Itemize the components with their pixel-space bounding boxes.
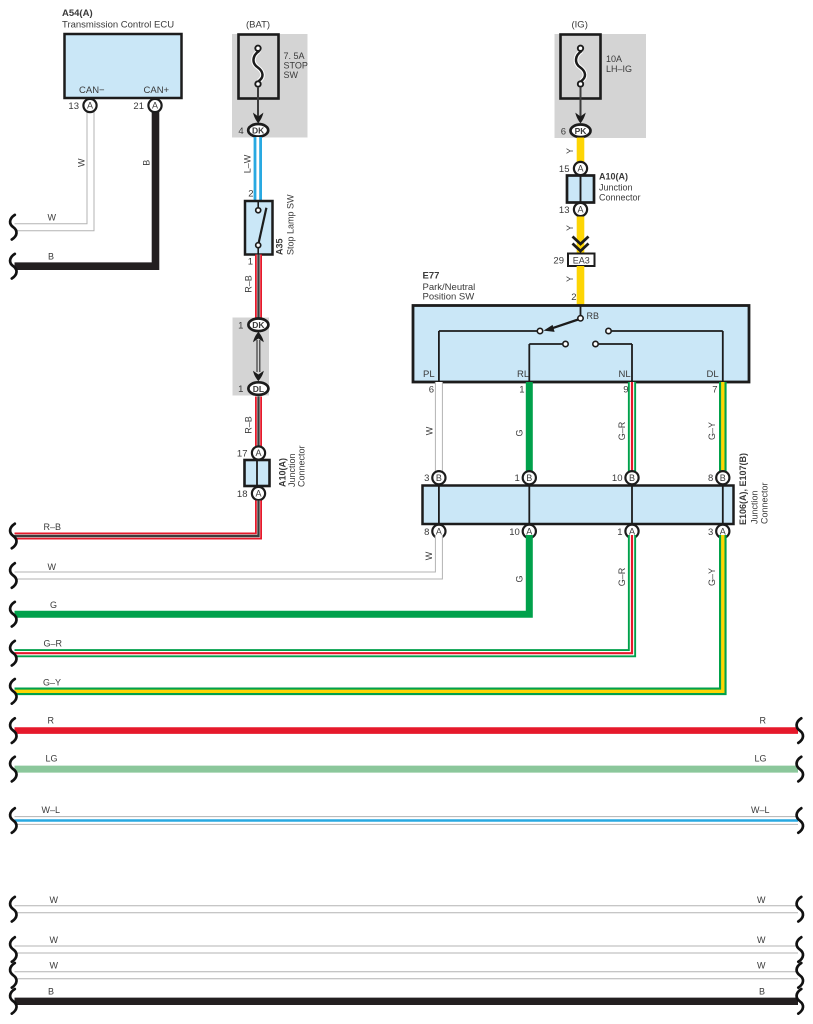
wire Y from A10(A) to EA3 (577, 217, 585, 254)
wire Y from PK to junction A10(A) (577, 138, 585, 163)
svg-text:Junction: Junction (599, 183, 633, 193)
wire between DK and DL (257, 340, 260, 372)
svg-text:B: B (436, 473, 442, 483)
svg-text:1: 1 (617, 527, 622, 538)
label A10(A) Junction Connector right (599, 172, 641, 203)
svg-text:3: 3 (708, 527, 713, 538)
svg-text:W: W (48, 562, 57, 572)
arrow up into DK (253, 332, 264, 342)
svg-text:RL: RL (517, 369, 529, 380)
label W2 right (757, 935, 766, 945)
label W vertical below (424, 551, 434, 560)
label W-L left (42, 805, 61, 815)
svg-text:3: 3 (424, 473, 429, 484)
connector pin 1 DL oval (238, 382, 268, 395)
label B bottom right (759, 987, 765, 997)
svg-text:7: 7 (712, 385, 717, 396)
svg-text:(IG): (IG) (572, 20, 588, 31)
svg-text:8: 8 (424, 527, 429, 538)
svg-text:Junction: Junction (287, 453, 297, 487)
svg-text:R–B: R–B (243, 275, 253, 293)
break symbol W mid left (10, 563, 16, 588)
svg-text:B: B (526, 473, 532, 483)
wire R-B from DL to junction A10(A) (255, 397, 262, 448)
svg-text:Connector: Connector (760, 482, 770, 524)
svg-text:Connector: Connector (297, 445, 307, 487)
label (IG) (572, 20, 588, 31)
label G vertical below (514, 575, 524, 582)
svg-text:15: 15 (559, 164, 570, 175)
wire G from pin 10A to left edge (15, 535, 530, 614)
label G-R vertical NL (617, 421, 627, 440)
label W1 right (757, 895, 766, 905)
break symbol R right (797, 718, 803, 743)
svg-text:A: A (577, 164, 583, 174)
svg-text:A: A (87, 101, 93, 111)
svg-text:1: 1 (519, 385, 524, 396)
svg-text:G–R: G–R (44, 639, 63, 649)
contact DL row right (606, 328, 723, 381)
svg-text:Y: Y (565, 148, 575, 154)
label LG left (46, 754, 58, 764)
svg-text:10: 10 (509, 527, 520, 538)
svg-text:A: A (255, 448, 261, 458)
pin numbers 6 1 9 7 below E77 (429, 385, 718, 396)
wire R-B to left edge (15, 501, 259, 537)
label B horizontal (48, 252, 54, 262)
svg-text:G–Y: G–Y (43, 678, 61, 688)
break symbol W2 left (10, 937, 16, 962)
break symbol G-Y left (10, 679, 16, 704)
svg-text:W: W (757, 935, 766, 945)
svg-text:6: 6 (561, 126, 566, 137)
svg-text:1: 1 (515, 473, 520, 484)
break symbol W wire left (10, 215, 16, 240)
svg-text:DL: DL (253, 384, 264, 394)
label G-Y vertical DL (707, 422, 717, 440)
svg-text:B: B (48, 252, 54, 262)
wire G-Y from pin 3A to left edge (15, 535, 723, 691)
break symbol W1 right (797, 897, 803, 922)
label G vertical RL (514, 429, 524, 436)
svg-text:W: W (757, 895, 766, 905)
svg-text:A: A (152, 101, 158, 111)
break symbol B bottom right (797, 989, 803, 1014)
svg-text:10A: 10A (606, 54, 622, 64)
svg-text:W–L: W–L (751, 805, 770, 815)
break symbol W-L right (797, 808, 803, 833)
svg-text:SW: SW (284, 70, 299, 80)
label B bottom left (48, 987, 54, 997)
arrow down into DL (253, 371, 264, 381)
svg-text:G: G (514, 429, 524, 436)
pin 3 B (424, 471, 445, 484)
switch E77 box (413, 306, 749, 383)
wire G-R from NL pin 9 (628, 382, 636, 475)
contact NL row (593, 341, 632, 381)
svg-text:G: G (50, 600, 57, 610)
svg-text:G–Y: G–Y (707, 568, 717, 586)
wire R-B from A35 to DK connector (255, 255, 262, 320)
contact RL row (529, 341, 568, 381)
svg-text:W: W (425, 426, 435, 435)
wire B full width (15, 998, 799, 1005)
wire W-L full width (15, 816, 799, 825)
wire W from PL pin 6 (435, 382, 443, 475)
svg-text:STOP: STOP (284, 61, 308, 71)
svg-text:R–B: R–B (243, 416, 253, 434)
pin 10 A (509, 525, 536, 538)
svg-text:18: 18 (237, 489, 248, 500)
svg-text:DK: DK (252, 126, 265, 136)
label LG right (755, 754, 767, 764)
pin 8 A (424, 525, 445, 538)
label W1 left (50, 895, 59, 905)
svg-text:A: A (577, 205, 583, 215)
junction connector E106(A) E107(B) box (423, 486, 734, 525)
break symbol W1 left (10, 897, 16, 922)
label E77 Park/Neutral Position SW (423, 271, 476, 303)
break symbol G left (10, 602, 16, 627)
break symbol W-L left (10, 808, 16, 833)
label R-B horizontal (44, 522, 62, 532)
svg-text:CAN−: CAN− (79, 85, 105, 96)
label W3 left (50, 961, 59, 971)
wire Y from EA3 to E77 (577, 266, 585, 306)
svg-text:A10(A): A10(A) (599, 172, 628, 182)
svg-text:8: 8 (708, 473, 713, 484)
wire fuse to connector DK (257, 87, 259, 118)
label pin 2 of E77 (571, 292, 576, 303)
svg-text:DK: DK (252, 320, 265, 330)
wire R full width (15, 727, 799, 734)
pin 13 A of A10(A) right (559, 203, 587, 216)
label A35 Stop Lamp SW (275, 194, 296, 255)
label A10(A) Junction Connector left (278, 445, 307, 487)
svg-text:LG: LG (755, 754, 767, 764)
chevron arrows on Y wire (573, 237, 589, 252)
svg-text:1: 1 (238, 384, 243, 395)
wire W from CAN- pin 13 to left edge (15, 108, 91, 227)
label R left (48, 716, 55, 726)
fuse element symbol IG (576, 46, 585, 87)
break symbol B bottom left (10, 989, 16, 1014)
svg-text:R: R (48, 716, 55, 726)
label W vertical PL (425, 426, 435, 435)
node RB in E77 (578, 306, 599, 321)
svg-text:LG: LG (46, 754, 58, 764)
fuse 10A LH-IG box (561, 35, 601, 99)
label W-L right (751, 805, 770, 815)
svg-text:B: B (48, 987, 54, 997)
arrow into DK (253, 113, 263, 124)
svg-text:CAN+: CAN+ (144, 85, 170, 96)
svg-text:2: 2 (248, 189, 253, 200)
wire W full width 1 (15, 905, 799, 913)
connector pin 6 PK oval (561, 125, 591, 138)
svg-text:A54(A): A54(A) (62, 8, 93, 19)
label 10A LH-IG (606, 54, 632, 74)
label W vertical on CAN- wire (76, 158, 86, 167)
pin 15 A of A10(A) right (559, 162, 587, 175)
label G-R vertical below (617, 567, 627, 586)
wire B from CAN+ pin 21 to left edge (15, 108, 156, 266)
label Y vertical 1 (565, 148, 575, 154)
pin 18 A of A10(A) (237, 487, 265, 500)
wire W full width 2 (15, 946, 799, 954)
switch arm from RB (544, 320, 579, 332)
pin 8 B (708, 471, 729, 484)
break symbol W3 left (10, 963, 16, 988)
label R-B vertical lower (243, 416, 253, 434)
node 29 EA3 box (553, 254, 594, 267)
svg-text:(BAT): (BAT) (246, 20, 270, 31)
svg-text:B: B (720, 473, 726, 483)
arrow into PK (575, 113, 585, 124)
svg-text:10: 10 (612, 473, 623, 484)
ECU A54(A) box (65, 34, 182, 98)
svg-text:L–W: L–W (242, 154, 252, 173)
label G-Y horizontal left (43, 678, 61, 688)
svg-text:Position SW: Position SW (423, 292, 475, 303)
break symbol LG right (797, 757, 803, 782)
svg-text:E77: E77 (423, 271, 440, 282)
svg-text:7. 5A: 7. 5A (284, 51, 305, 61)
svg-text:Transmission Control ECU: Transmission Control ECU (62, 20, 174, 31)
svg-text:B: B (629, 473, 635, 483)
svg-text:G–Y: G–Y (707, 422, 717, 440)
wire G from RL pin 1 (526, 382, 533, 475)
svg-text:Y: Y (565, 225, 575, 231)
break symbol W3 right (797, 963, 803, 988)
svg-text:NL: NL (619, 369, 631, 380)
svg-text:A10(A): A10(A) (278, 458, 288, 487)
label G horizontal left (50, 600, 57, 610)
contact PL row left (439, 328, 543, 381)
svg-text:W: W (50, 961, 59, 971)
pin 10 B (612, 471, 639, 484)
svg-text:G: G (514, 575, 524, 582)
label pin 2 of A35 (248, 189, 253, 200)
label W horizontal left (48, 562, 57, 572)
svg-text:4: 4 (238, 126, 243, 137)
svg-text:R: R (760, 716, 767, 726)
switch A35 box (245, 201, 273, 255)
wire fuse IG to connector PK (580, 87, 582, 118)
connector pin 4 DK oval (238, 124, 268, 137)
svg-text:17: 17 (237, 449, 248, 460)
svg-text:W: W (757, 961, 766, 971)
label W2 left (50, 935, 59, 945)
svg-text:EA3: EA3 (573, 255, 590, 265)
svg-text:A35: A35 (275, 238, 285, 255)
svg-text:6: 6 (429, 385, 434, 396)
svg-text:Y: Y (565, 276, 575, 282)
break symbol B wire left (10, 254, 16, 279)
wire W full width 3 (15, 971, 799, 979)
label W3 right (757, 961, 766, 971)
svg-text:W: W (76, 158, 86, 167)
wire W from pin 8A to left edge (15, 535, 439, 576)
svg-text:Junction: Junction (750, 490, 760, 524)
label G-Y vertical below (707, 568, 717, 586)
svg-text:W: W (48, 213, 57, 223)
break symbol G-R left (10, 641, 16, 666)
pin 17 A of A10(A) (237, 446, 265, 459)
junction connector A10(A) right box (567, 176, 594, 203)
svg-text:G–R: G–R (617, 567, 627, 586)
svg-text:21: 21 (133, 101, 144, 112)
svg-text:Stop Lamp SW: Stop Lamp SW (286, 194, 296, 255)
svg-text:B: B (141, 160, 151, 166)
svg-text:W–L: W–L (42, 805, 61, 815)
label 7.5A STOP SW (284, 51, 308, 80)
label G-R horizontal left (44, 639, 63, 649)
wire L-W from DK to stop lamp SW (254, 137, 262, 201)
break symbol W2 right (797, 937, 803, 962)
pin 21 A of A54(A) (133, 99, 161, 112)
fuse block background (BAT) (232, 34, 308, 138)
svg-text:LH–IG: LH–IG (606, 64, 632, 74)
label Y vertical 3 (565, 276, 575, 282)
junction connector A10(A) left box (245, 460, 270, 486)
wire LG full width (15, 766, 799, 773)
svg-text:13: 13 (559, 205, 570, 216)
svg-text:DL: DL (707, 369, 719, 380)
label E106(A) E107(B) Junction Connector (738, 453, 770, 525)
break symbol R left (10, 718, 16, 743)
svg-text:B: B (759, 987, 765, 997)
svg-text:PL: PL (423, 369, 435, 380)
fuse element symbol (253, 46, 262, 87)
connector A54(A) Transmission Control ECU label (62, 8, 174, 31)
label (BAT) (246, 20, 270, 31)
svg-text:E106(A), E107(B): E106(A), E107(B) (738, 453, 748, 525)
svg-text:PK: PK (575, 126, 588, 136)
pin 3 A (708, 525, 729, 538)
label Y vertical 2 (565, 225, 575, 231)
label R right (760, 716, 767, 726)
svg-text:G–R: G–R (617, 421, 627, 440)
label R-B vertical upper (243, 275, 253, 293)
svg-text:Connector: Connector (599, 193, 641, 203)
fuse 7.5A STOP SW box (239, 35, 279, 99)
connector pair background (233, 318, 270, 396)
svg-text:2: 2 (571, 292, 576, 303)
label B vertical on CAN+ wire (141, 160, 151, 166)
svg-text:9: 9 (623, 385, 628, 396)
wire G-Y from DL pin 7 (719, 382, 727, 475)
labels PL RL NL DL (423, 369, 719, 380)
svg-text:A: A (255, 489, 261, 499)
label L-W vertical (242, 154, 252, 173)
pin 1 A (617, 525, 638, 538)
pin 1 B (515, 471, 536, 484)
pin 13 A of A54(A) (68, 99, 96, 112)
svg-text:W: W (50, 895, 59, 905)
svg-text:1: 1 (238, 320, 243, 331)
svg-text:W: W (50, 935, 59, 945)
wire G-R from pin 1A to left edge (15, 535, 633, 653)
fuse block background (IG) (555, 34, 647, 138)
svg-text:W: W (424, 551, 434, 560)
label pin 1 of A35 (248, 257, 253, 268)
svg-text:29: 29 (553, 256, 564, 267)
svg-text:1: 1 (248, 257, 253, 268)
svg-text:13: 13 (68, 101, 79, 112)
connector pin 1 DK oval (238, 319, 268, 332)
svg-text:RB: RB (587, 311, 600, 321)
break symbol LG left (10, 757, 16, 782)
svg-text:R–B: R–B (44, 522, 62, 532)
break symbol R-B left (10, 524, 16, 549)
label W horizontal (48, 213, 57, 223)
